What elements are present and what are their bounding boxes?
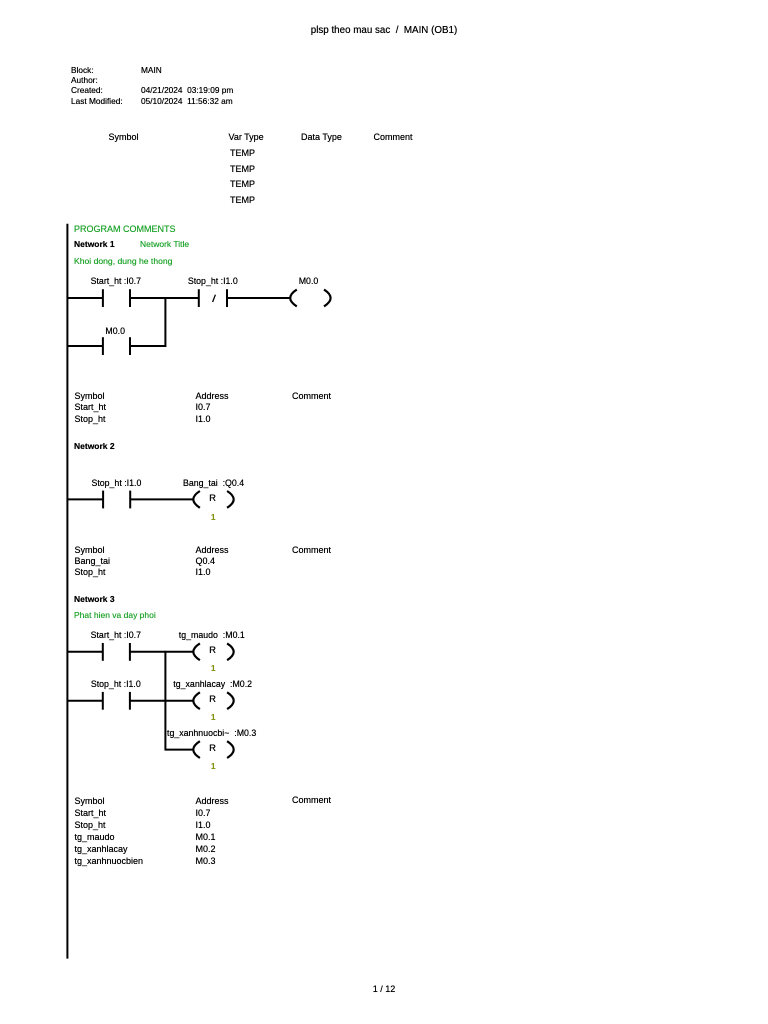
N3 reset coil tg_xanhnuocbien M0.3 <box>193 741 200 758</box>
N1 wire rail to contact M0.0 <box>67 345 103 347</box>
network 1 comment <box>74 256 172 268</box>
N3 reset coil tg_maudo M0.1 <box>193 643 200 660</box>
network 3 heading <box>74 594 115 606</box>
N3 wire rail to Start_ht <box>67 651 103 653</box>
network 1 heading <box>74 239 115 251</box>
N1 coil M0.0 <box>290 290 297 307</box>
page title <box>0 25 768 37</box>
N1 label contact M0.0 <box>105 326 125 337</box>
N2 wire rail to Stop_ht <box>67 498 104 500</box>
block info values <box>141 65 233 106</box>
N1 branch junction wire <box>164 297 166 347</box>
N2 R letter <box>209 493 216 504</box>
block info labels <box>71 65 123 106</box>
N2 reset operand 1 <box>211 512 215 523</box>
N2 reset coil Bang_tai Q0.4 <box>193 491 200 508</box>
left power rail <box>66 224 68 959</box>
symbol table network 2 <box>75 545 111 578</box>
N3 branch junction wire <box>164 651 166 750</box>
N1 contact Start_ht I0.7 <box>102 289 104 307</box>
symbol table network 1 <box>75 391 107 426</box>
N3 contact Start_ht I0.7 <box>102 643 104 661</box>
var rows TEMP <box>230 148 255 160</box>
N1 wire contact M0.0 to junction <box>130 345 166 347</box>
N3 reset operand 1 row2 <box>211 712 215 723</box>
N3 reset operand 1 row1 <box>211 663 215 674</box>
N1 wire rail to Start_ht <box>67 297 103 299</box>
page number <box>0 984 768 996</box>
N3 R3 letter <box>209 743 216 754</box>
N3 wire Stop_ht to coil tg_xanhlacay <box>130 700 194 702</box>
N3 wire Start_ht to coil tg_maudo <box>130 651 194 653</box>
N1 label contact Stop_ht <box>188 276 238 287</box>
N3 wire rail to Stop_ht <box>67 700 103 702</box>
program comments heading <box>74 224 176 236</box>
N1 wire Stop_ht to coil <box>227 297 291 299</box>
N3 label coil tg_maudo <box>179 630 245 642</box>
var table header <box>109 132 139 144</box>
N3 wire branch to coil tg_xanhnuocbien <box>165 749 195 751</box>
N1 contact M0.0 <box>102 337 104 355</box>
N1 wire Start_ht to Stop_ht <box>130 297 199 299</box>
N3 R1 letter <box>209 645 216 656</box>
N3 label contact Stop_ht <box>91 679 141 690</box>
N2 contact Stop_ht I1.0 <box>102 491 104 509</box>
N3 label coil tg_xanhlacay <box>173 679 252 691</box>
N3 reset operand 1 row3 <box>211 761 215 772</box>
N2 wire Stop_ht to coil <box>130 498 194 500</box>
N1 label coil M0.0 <box>299 276 319 287</box>
N3 label contact Start_ht <box>91 630 141 641</box>
N1 NC contact Stop_ht I1.0 <box>198 289 200 307</box>
N2 label contact Stop_ht <box>91 478 141 489</box>
symbol table network 3 <box>75 795 144 867</box>
N1 label contact Start_ht <box>91 276 141 287</box>
network 2 heading <box>74 441 115 453</box>
N3 contact Stop_ht I1.0 <box>102 692 104 710</box>
N3 R2 letter <box>209 694 216 705</box>
N3 reset coil tg_xanhlacay M0.2 <box>193 692 200 709</box>
network 3 comment <box>74 610 156 622</box>
N2 label coil Bang_tai <box>183 478 244 490</box>
N3 label coil tg_xanhnuocbi~ <box>167 728 256 740</box>
